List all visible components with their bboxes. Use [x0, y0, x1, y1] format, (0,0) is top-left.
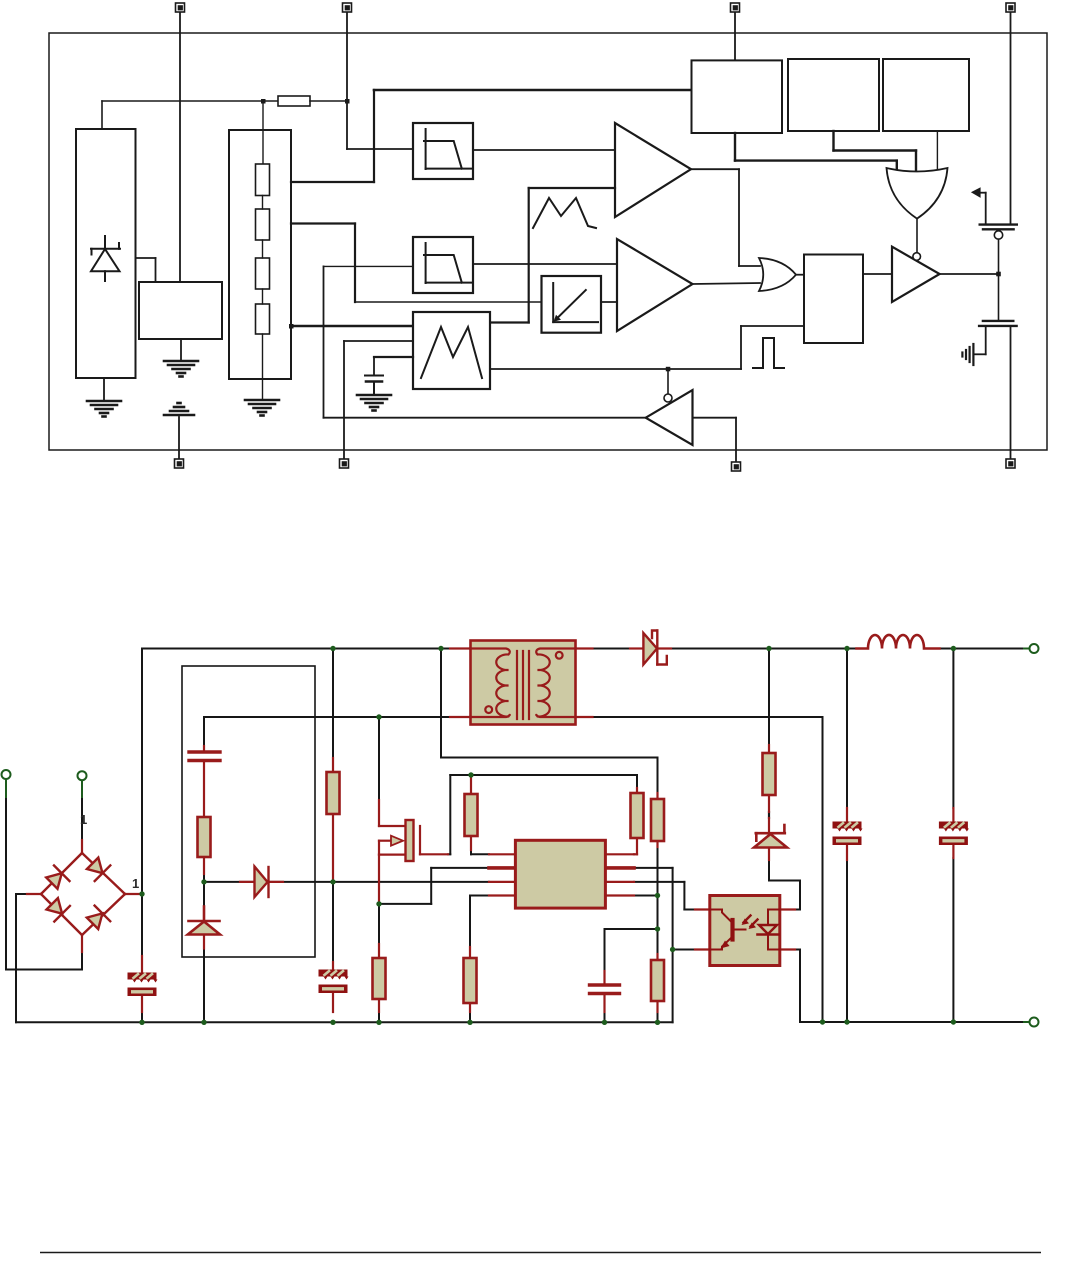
svg-text:1: 1 — [132, 876, 139, 891]
svg-text:1: 1 — [80, 812, 87, 827]
